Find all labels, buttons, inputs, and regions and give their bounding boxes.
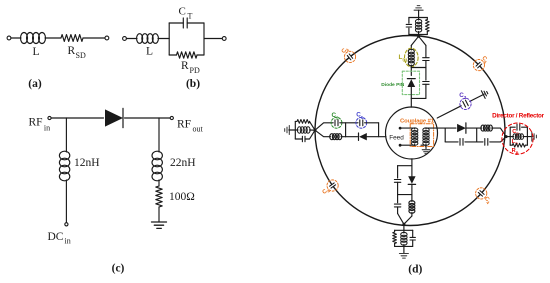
top arm cap branch <box>408 18 410 24</box>
diode bottom <box>411 166 413 177</box>
right arm cap 2 <box>485 139 488 146</box>
svg-text:(b): (b) <box>186 78 200 90</box>
svg-text:in: in <box>65 237 71 246</box>
svg-text:(a): (a) <box>28 78 42 90</box>
wire up branch <box>315 123 333 130</box>
wire <box>403 224 405 230</box>
right arm cap 1 <box>445 141 458 143</box>
terminal RF_out <box>170 116 173 119</box>
node right (b) <box>203 23 205 55</box>
inductor L01 <box>408 49 414 54</box>
capacitor C1 <box>360 120 363 126</box>
bottom arm capacitor 2 <box>394 204 400 207</box>
wire <box>126 38 137 40</box>
svg-text:2: 2 <box>336 116 339 121</box>
left box left <box>294 121 296 139</box>
wire <box>410 87 412 98</box>
top arm box top <box>409 17 427 19</box>
diode PIN <box>407 78 415 80</box>
ring capacitor C4 top-left <box>347 54 353 60</box>
label ring capacitor C4 bottom-left <box>322 187 332 197</box>
left box resistor <box>295 120 297 122</box>
svg-text:RF: RF <box>29 117 43 129</box>
svg-text:12nH: 12nH <box>74 157 100 169</box>
wire <box>426 127 434 129</box>
wire C3 diagonal <box>437 106 461 118</box>
terminal dot primary top <box>399 127 402 130</box>
wire <box>490 137 507 142</box>
bottom box cap <box>412 230 414 237</box>
wire <box>45 37 61 39</box>
terminal DC_in <box>65 223 68 226</box>
label ring capacitor C4 top-right <box>480 55 490 65</box>
wire <box>346 136 358 138</box>
svg-text:Feed: Feed <box>389 135 404 142</box>
terminal left (b) <box>123 37 127 41</box>
svg-text:SD: SD <box>76 51 86 60</box>
coupling ground <box>422 150 430 154</box>
wire <box>11 37 21 39</box>
wire <box>65 180 67 223</box>
wire down branch <box>315 130 331 137</box>
wire <box>397 166 399 178</box>
wire <box>158 207 160 222</box>
wire <box>425 84 427 98</box>
node RF branch <box>158 118 160 152</box>
right arm coil <box>481 125 485 131</box>
ground C3 branch <box>481 89 489 99</box>
wire <box>434 127 446 129</box>
top arm capacitor right <box>423 58 429 61</box>
director dashed circle <box>502 123 533 154</box>
wire <box>445 127 456 129</box>
svg-text:RF: RF <box>177 119 191 131</box>
terminal RF_in <box>48 116 51 119</box>
wire top left (b) <box>169 22 183 24</box>
ring capacitor C4 bottom-right <box>478 190 484 196</box>
svg-text:1: 1 <box>361 115 364 120</box>
svg-text:R: R <box>181 60 189 72</box>
wire bottom right (b) <box>197 54 204 56</box>
top arm coil branch <box>418 18 420 21</box>
wire <box>367 136 386 138</box>
bottom box resistor <box>394 230 396 232</box>
left box coil <box>297 127 301 133</box>
wire to feed <box>410 98 412 107</box>
ring capacitor C4 top-right dashed circle <box>473 60 484 71</box>
ground (c) <box>152 222 167 228</box>
coupling box <box>410 124 433 147</box>
capacitor C2 <box>335 120 338 126</box>
wire <box>341 136 346 138</box>
ground top arm <box>414 6 423 11</box>
wire <box>204 38 222 40</box>
wire <box>492 128 507 137</box>
wire top right (b) <box>187 22 204 24</box>
terminal dot primary bottom <box>399 144 402 147</box>
bottom box bottom <box>395 245 413 247</box>
node left (b) <box>168 23 170 55</box>
wire <box>397 207 399 214</box>
svg-text:Director / Reflector: Director / Reflector <box>492 113 544 120</box>
wire <box>158 38 169 40</box>
top arm capacitor right 2 <box>423 82 429 85</box>
diode left arm <box>358 133 360 140</box>
svg-text:L: L <box>33 46 40 58</box>
junction bottom <box>398 214 404 225</box>
resistor R_SD <box>61 35 83 42</box>
wire <box>400 144 415 146</box>
terminal right (b) <box>222 37 226 41</box>
ring capacitor C4 bottom-left <box>329 183 335 189</box>
svg-text:C: C <box>179 6 186 18</box>
wire from feed <box>411 159 413 166</box>
svg-text:PD: PD <box>190 66 200 75</box>
inductor L (b) <box>137 34 143 44</box>
diode PIN box <box>402 71 419 94</box>
bottom box top <box>395 229 413 231</box>
junction left <box>314 129 317 132</box>
coupling secondary coil <box>425 127 427 130</box>
wire <box>51 117 103 119</box>
node DC branch <box>65 118 67 152</box>
wire <box>425 145 427 148</box>
wire <box>465 141 483 143</box>
left box cap <box>295 138 302 140</box>
ground right arm <box>532 132 537 141</box>
director coil Lp <box>510 136 513 138</box>
label ring capacitor C4 top-left <box>341 46 351 56</box>
right connector 2 <box>476 128 478 142</box>
wire <box>83 37 105 39</box>
inductor 22nH <box>152 151 162 160</box>
svg-text:22nH: 22nH <box>170 157 196 169</box>
svg-text:T: T <box>188 12 193 21</box>
svg-text:(c): (c) <box>112 263 125 275</box>
capacitor C_T <box>183 18 187 28</box>
director box left <box>509 127 511 145</box>
svg-text:L: L <box>146 46 153 58</box>
ring capacitor C4 top-right <box>476 62 482 68</box>
svg-text:100Ω: 100Ω <box>169 191 195 203</box>
resistor 100ohm <box>156 186 162 207</box>
C3 dashed circle <box>460 98 471 109</box>
svg-text:DC: DC <box>48 231 64 243</box>
director resistor Rp <box>510 144 512 146</box>
ring capacitor C4 bottom-left dashed circle <box>327 180 338 191</box>
wire <box>403 246 405 253</box>
wire <box>410 68 412 76</box>
top arm resistor branch <box>426 18 428 20</box>
wire <box>477 127 482 129</box>
wire <box>418 10 420 17</box>
terminal left (a) <box>7 36 11 40</box>
connector mid <box>345 123 347 137</box>
wire bottom left (b) <box>169 54 176 56</box>
ring capacitor C4 top-left dashed circle <box>344 51 355 62</box>
wire <box>527 136 532 138</box>
wire <box>467 127 477 129</box>
inductor L (a) <box>21 33 28 44</box>
terminal right (a) <box>105 36 109 40</box>
svg-text:out: out <box>193 125 204 134</box>
wire <box>425 61 427 68</box>
svg-text:3: 3 <box>464 95 467 100</box>
ground left arm <box>285 126 290 135</box>
bottom arm capacitor 1 <box>394 180 400 183</box>
top arm connector 2 <box>411 97 426 99</box>
director box right <box>526 127 528 145</box>
wire <box>506 136 510 138</box>
wire <box>340 122 358 124</box>
wire <box>400 127 415 129</box>
svg-text:(d): (d) <box>408 264 422 276</box>
left arm coil <box>330 134 334 140</box>
wire split left <box>411 36 418 45</box>
diode right arm <box>457 123 466 133</box>
L01 dashed circle <box>405 48 419 67</box>
inductor 12nH <box>59 151 69 160</box>
diode D1 (c) <box>105 108 123 127</box>
wire <box>425 68 427 81</box>
junction top <box>418 35 420 37</box>
bottom arm inductor <box>409 201 415 205</box>
wire <box>397 182 399 194</box>
top arm connector 1 <box>411 67 426 69</box>
bottom connector 1 <box>398 194 412 196</box>
connector right <box>378 123 380 137</box>
ground bottom arm <box>399 254 408 259</box>
bottom box coil <box>403 230 405 233</box>
feed circle <box>386 107 438 159</box>
right connector 1 <box>444 128 446 142</box>
top arm box bottom <box>409 34 427 36</box>
wire <box>397 195 399 203</box>
capacitor C3 <box>463 100 468 107</box>
wire <box>410 65 412 68</box>
wire <box>411 195 413 202</box>
coupling primary coil <box>414 127 416 130</box>
C2 dashed circle <box>331 117 342 128</box>
resistor R_PD <box>177 52 198 58</box>
wire <box>289 129 296 131</box>
wire split right <box>419 36 426 45</box>
svg-text:in: in <box>44 124 50 133</box>
C1 dashed circle <box>356 117 367 128</box>
svg-text:Diode PIN: Diode PIN <box>381 82 405 88</box>
antenna ring (d) <box>315 36 505 226</box>
wire <box>411 213 413 217</box>
svg-text:01: 01 <box>403 58 409 63</box>
svg-text:R: R <box>68 45 76 57</box>
bottom split <box>398 165 412 167</box>
wire <box>125 117 171 119</box>
director cap Cp <box>510 126 515 128</box>
label ring capacitor C4 bottom-right <box>482 196 492 206</box>
wire <box>365 122 379 124</box>
wire <box>411 184 413 194</box>
ring capacitor C4 bottom-right dashed circle <box>476 188 487 199</box>
wire <box>158 180 160 186</box>
junction right <box>505 135 508 138</box>
